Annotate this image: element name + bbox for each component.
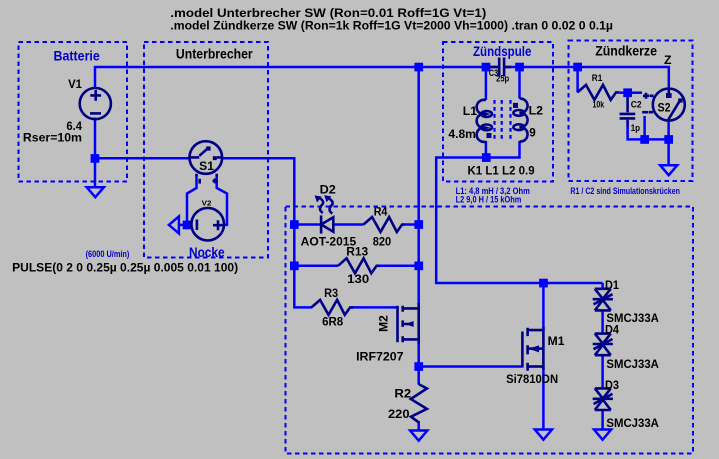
box Batterie (19, 42, 128, 182)
node transformer bottom (482, 153, 491, 162)
resistor R3 (312, 286, 354, 329)
node R13 row left (290, 262, 299, 271)
wire D2 to R4 (335, 223, 364, 226)
wire node to M1 drain (542, 283, 545, 330)
wire S1 control right leg (217, 177, 227, 225)
node C3 left (482, 63, 491, 72)
svg-text:Zündspule: Zündspule (473, 44, 532, 59)
svg-text:K1 L1 L2 0.9: K1 L1 L2 0.9 (468, 163, 535, 177)
svg-text:D1: D1 (605, 278, 619, 292)
wire S1 to left vertical bus down to R3 (222, 158, 312, 307)
wire node to R13 (294, 265, 338, 268)
svg-text:4.8m: 4.8m (448, 127, 476, 141)
wire top rail battery to C3 (95, 67, 498, 88)
wire C2 bottom rail (628, 126, 669, 139)
node M1 drain (539, 279, 548, 288)
wire transformer bottom to M1 drain and D1 (436, 158, 602, 284)
box driver circuit (286, 207, 694, 454)
svg-text:R4: R4 (374, 205, 388, 219)
svg-text:Z: Z (664, 53, 672, 67)
svg-text:R1 / C2 sind Simulationskrücke: R1 / C2 sind Simulationskrücken (570, 186, 680, 196)
tvs diode D4 (593, 323, 660, 372)
node nocke ground (183, 221, 192, 230)
node R13 right (414, 262, 423, 271)
wire spark plug node down to R1 (576, 67, 579, 92)
svg-text:6R8: 6R8 (322, 315, 343, 329)
svg-text:1p: 1p (631, 123, 641, 133)
wire S2 minus pin down (643, 116, 646, 139)
wire S1 control left leg (187, 177, 197, 222)
wire R1 to node (619, 91, 627, 94)
wire D4 to D3 (601, 355, 604, 388)
wire R3 to M2 gate (353, 306, 398, 309)
switch S2 (642, 89, 685, 121)
capacitor C3 (489, 58, 511, 84)
tvs diode D1 (593, 278, 660, 325)
svg-text:220: 220 (388, 407, 410, 421)
node R1 C2 (623, 88, 632, 97)
capacitor C2 (620, 97, 642, 133)
node S2 minus rail (640, 135, 649, 144)
svg-text:(6000 U/min): (6000 U/min) (86, 249, 130, 259)
wire D1 top (601, 283, 604, 289)
svg-text:SMCJ33A: SMCJ33A (606, 416, 659, 430)
svg-text:PULSE(0 2 0 0.25µ 0.25µ 0.005: PULSE(0 2 0 0.25µ 0.25µ 0.005 0.01 100) (12, 261, 238, 275)
node spark plug top (573, 63, 582, 72)
wire node to S2 plus pin (628, 91, 642, 94)
svg-text:L2: L2 (529, 103, 544, 117)
ground nocke (points left) (169, 216, 179, 233)
svg-text:R1: R1 (592, 73, 603, 83)
resistor R13 (338, 244, 380, 286)
wire S2 bottom to ground (667, 121, 670, 166)
wire nocke ground stub (179, 224, 187, 227)
switch S1 (190, 141, 223, 183)
ground battery (87, 187, 104, 197)
nmos M1 (506, 327, 565, 386)
wire top rail C3 to spark plug corner (505, 67, 669, 89)
wire M2 drain node to M1 gate (419, 365, 523, 368)
wire R4 to node (404, 223, 419, 226)
svg-text:M1: M1 (548, 334, 565, 348)
node M2 drain (414, 362, 423, 371)
svg-text:D3: D3 (605, 378, 619, 392)
node R4 right (414, 220, 423, 229)
svg-text:Rser=10m: Rser=10m (23, 131, 82, 145)
svg-text:820: 820 (373, 235, 392, 249)
box Zuendkerze (569, 41, 693, 182)
svg-text:25p: 25p (496, 73, 510, 83)
resistor R1 (577, 73, 619, 109)
led D2 (301, 182, 357, 248)
wire M1 source to ground (542, 367, 545, 430)
wire L2 bottom to node (486, 141, 520, 158)
node S2 bottom (664, 135, 673, 144)
svg-text:Unterbrecher: Unterbrecher (176, 46, 253, 61)
svg-text:R2: R2 (394, 387, 411, 401)
wire L2 top (518, 68, 521, 99)
svg-text:.model Zündkerze SW (Ron=1k Ro: .model Zündkerze SW (Ron=1k Roff=1G Vt=2… (170, 18, 613, 32)
ground D3 (594, 430, 611, 440)
wire battery node to S1 (95, 157, 190, 160)
svg-text:L1: L1 (463, 104, 478, 118)
svg-text:D2: D2 (320, 182, 337, 196)
inductor L1 (448, 100, 492, 142)
svg-text:D4: D4 (605, 323, 619, 337)
svg-text:IRF7207: IRF7207 (356, 349, 404, 363)
pmos M2 (356, 303, 419, 363)
svg-text:9: 9 (529, 126, 536, 140)
resistor R4 (364, 205, 405, 249)
inductor L2 (513, 99, 543, 142)
svg-text:V1: V1 (68, 77, 82, 91)
wire L1 bottom to node (485, 141, 488, 158)
svg-text:Zündkerze: Zündkerze (595, 43, 657, 58)
svg-text:10k: 10k (593, 99, 605, 109)
svg-text:130: 130 (347, 272, 369, 286)
wire R13 to node (379, 265, 419, 268)
wire D1 to D4 (601, 311, 604, 334)
svg-text:L2 9,0 H / 15 kOhm: L2 9,0 H / 15 kOhm (456, 194, 522, 204)
svg-text:M2: M2 (377, 315, 391, 332)
ground M1 (535, 430, 552, 440)
box Zuendspule (443, 42, 553, 182)
node C3 right (515, 63, 524, 72)
tvs diode D3 (593, 378, 660, 430)
battery V1 (23, 77, 111, 145)
node top rail bus (414, 63, 423, 72)
svg-text:SMCJ33A: SMCJ33A (606, 357, 659, 371)
node D2 row left (290, 220, 299, 229)
wire node to R2 (417, 367, 420, 385)
svg-text:R13: R13 (346, 244, 368, 258)
svg-text:S2: S2 (658, 100, 671, 114)
wire D3 to ground (601, 410, 604, 429)
svg-text:V2: V2 (202, 198, 212, 207)
node battery bottom (91, 154, 100, 163)
voltage source V2 (Nocke) (191, 198, 224, 240)
svg-text:Nocke: Nocke (189, 245, 225, 260)
wire battery bottom to ground (94, 118, 97, 188)
wire R2 to ground (417, 421, 420, 431)
resistor R2 (388, 384, 427, 422)
svg-text:S1: S1 (199, 159, 214, 173)
ground R2 (410, 431, 427, 441)
spice directive .model lines (170, 6, 613, 32)
transformer core (487, 100, 519, 142)
wire vertical bus from top rail to M2 source (417, 67, 420, 306)
wire node to D2 (294, 223, 320, 226)
box Unterbrecher (144, 42, 268, 258)
ground S2 (660, 165, 677, 175)
svg-text:R3: R3 (324, 286, 338, 300)
wire M2 drain to node (417, 342, 420, 367)
svg-text:C2: C2 (631, 100, 642, 110)
wire L1 top (485, 68, 488, 100)
svg-text:Si7810DN: Si7810DN (506, 372, 558, 386)
annotation coil data (456, 186, 530, 204)
svg-text:Batterie: Batterie (54, 49, 101, 64)
